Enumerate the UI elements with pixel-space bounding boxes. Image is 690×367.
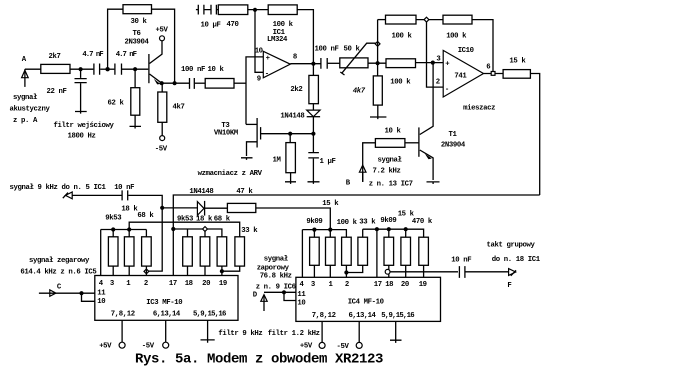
svg-text:2: 2: [345, 281, 349, 289]
svg-text:filtr 9 kHz: filtr 9 kHz: [218, 330, 262, 338]
resistor 18k (IC3 pin20): [196, 216, 213, 278]
node junction +input/T1 collector: [431, 61, 435, 65]
wire rail left group IC3: [101, 230, 147, 278]
node junction D branch: [282, 290, 286, 294]
svg-text:T1: T1: [449, 131, 458, 139]
svg-text:15 k: 15 k: [322, 200, 339, 208]
ground (4k7 pot): [370, 117, 386, 119]
wire X1 up to 30k: [108, 9, 123, 69]
node diamond rail 18k: [203, 227, 208, 232]
wire takt grupowy: [390, 271, 458, 273]
svg-text:100 k: 100 k: [337, 219, 358, 227]
svg-text:2N3904: 2N3904: [441, 142, 466, 150]
wire pot to 100k: [368, 62, 386, 64]
svg-text:10 k: 10 k: [385, 128, 402, 136]
svg-text:F: F: [507, 282, 511, 290]
node B input terminal: [346, 157, 413, 189]
resistor 9k53 (IC3 pin18): [177, 216, 194, 278]
resistor 10k (T1 base): [363, 128, 419, 182]
svg-text:100 nF: 100 nF: [315, 45, 339, 53]
svg-text:sygnał: sygnał: [13, 94, 38, 102]
svg-text:10: 10: [297, 299, 305, 307]
node emitter junction: [160, 81, 164, 85]
node junction res 9k53: [111, 227, 115, 231]
svg-text:6: 6: [486, 64, 490, 72]
node diamond junction (100k/100k): [424, 17, 429, 22]
IC U IC3 MF-10: [95, 276, 238, 321]
svg-text:2k7: 2k7: [49, 53, 61, 61]
wire 10k node down to T3 drain: [246, 123, 257, 125]
node junction 30k/emitter: [173, 81, 177, 85]
svg-text:2: 2: [144, 280, 148, 288]
svg-text:1800 Hz: 1800 Hz: [68, 133, 96, 141]
capacitor C 4.7nF first: [82, 51, 107, 75]
svg-text:-: -: [445, 86, 449, 94]
svg-text:10: 10: [255, 48, 263, 56]
svg-text:10 nF: 10 nF: [451, 257, 471, 265]
+5V terminal IC4: [300, 342, 325, 350]
label filtr wejsciowy 1800 Hz: [54, 122, 115, 141]
svg-text:18 k: 18 k: [196, 216, 213, 224]
resistor 100k (IC4 pin2): [337, 219, 358, 277]
capacitor 10uF: [196, 5, 221, 30]
svg-text:7.2 kHz: 7.2 kHz: [373, 168, 401, 176]
wire: [70, 68, 93, 70]
svg-text:5,9,15,16: 5,9,15,16: [193, 311, 226, 319]
wire emitter to 100nF: [162, 82, 189, 84]
IC U IC4 MF-10: [296, 277, 441, 321]
resistor 15k (IC4 pin1): [326, 230, 336, 278]
svg-text:33 k: 33 k: [241, 227, 258, 235]
svg-text:4.7 nF: 4.7 nF: [82, 51, 103, 59]
-5V terminal IC3: [142, 342, 169, 350]
svg-text:11: 11: [297, 291, 306, 299]
wire +5V stub IC4: [321, 321, 323, 342]
svg-text:6,13,14: 6,13,14: [153, 311, 181, 319]
svg-text:62 k: 62 k: [108, 100, 125, 108]
svg-text:2: 2: [436, 79, 440, 87]
svg-text:IC3 MF-10: IC3 MF-10: [146, 299, 182, 307]
svg-text:10 nF: 10 nF: [114, 184, 134, 192]
node junction res 15kb: [404, 227, 408, 231]
resistor 100k (top rail 2): [443, 15, 493, 71]
node diamond pin2 tap: [144, 269, 149, 274]
wire diamond to pin2: [427, 22, 444, 87]
svg-text:100 nF: 100 nF: [181, 66, 205, 74]
svg-text:10 k: 10 k: [208, 66, 225, 74]
node output arrow sygnal 9kHz: [10, 184, 122, 199]
node junction res 9k09b: [387, 227, 391, 231]
svg-text:19: 19: [419, 281, 427, 289]
wire: [128, 195, 162, 271]
diode 1N4148 (limiter): [162, 188, 227, 216]
node junction 2k7/22nF: [79, 67, 83, 71]
svg-text:sygnał: sygnał: [378, 157, 403, 165]
svg-text:100 k: 100 k: [273, 21, 294, 29]
svg-text:470: 470: [227, 21, 239, 29]
wire long net from 15k: [173, 195, 539, 277]
svg-text:takt grupowy: takt grupowy: [487, 242, 536, 250]
ground (62k): [130, 126, 142, 128]
resistor 100k (mixer input): [386, 59, 443, 87]
wire IC1 output: [290, 63, 320, 65]
svg-text:741: 741: [454, 73, 467, 81]
node junction 47k entry: [328, 228, 332, 232]
svg-text:4.7 nF: 4.7 nF: [116, 51, 137, 59]
svg-text:z n. 9 IC6: z n. 9 IC6: [256, 283, 296, 291]
svg-text:+5V: +5V: [300, 343, 313, 351]
svg-text:1M: 1M: [273, 157, 282, 165]
svg-text:VN10KM: VN10KM: [214, 130, 239, 138]
svg-text:33 k: 33 k: [359, 219, 376, 227]
resistor 62k: [108, 69, 140, 126]
resistor 470: [218, 5, 268, 29]
svg-text:5,9,15,16: 5,9,15,16: [381, 312, 414, 320]
svg-text:sygnał: sygnał: [264, 255, 289, 263]
svg-text:7,8,12: 7,8,12: [312, 312, 336, 320]
node takt output tap circle: [385, 269, 390, 274]
capacitor 10nF (9kHz out): [114, 184, 162, 271]
resistor 9k09 (IC4 pin3): [306, 218, 322, 277]
svg-text:17: 17: [169, 280, 177, 288]
wire +5V stub IC3: [121, 320, 123, 342]
svg-text:-: -: [265, 70, 269, 78]
svg-text:IC4 MF-10: IC4 MF-10: [348, 299, 384, 307]
svg-text:10 µF: 10 µF: [201, 22, 221, 30]
node junction 33k/pin2: [344, 270, 348, 274]
svg-text:30 k: 30 k: [131, 18, 148, 26]
svg-text:sygnał zegarowy: sygnał zegarowy: [29, 257, 90, 265]
svg-text:4k7: 4k7: [353, 88, 366, 96]
node junction diode tap: [160, 206, 164, 210]
svg-text:9k09: 9k09: [306, 218, 322, 226]
node junction rail right group IC3: [171, 227, 175, 231]
wire node to IC1 +input and T3 drain: [246, 57, 263, 125]
wire: [472, 20, 493, 72]
node IC1 output junction: [311, 62, 315, 66]
svg-text:100 k: 100 k: [392, 33, 413, 41]
svg-text:z p. A: z p. A: [13, 117, 38, 125]
resistor 33k (IC3 bridge): [222, 227, 258, 271]
resistor 100k (IC1 feedback): [268, 5, 313, 64]
resistor 10k (IC1 input): [205, 66, 246, 88]
wire: [363, 143, 376, 182]
resistor 15k (mixer out): [503, 58, 540, 196]
wire: [248, 9, 268, 11]
svg-text:8: 8: [293, 54, 297, 62]
svg-text:wzmacniacz z ARV: wzmacniacz z ARV: [198, 170, 263, 178]
resistor 33k (IC4 bridge): [346, 219, 376, 273]
svg-text:18 k: 18 k: [121, 205, 138, 213]
svg-text:68 k: 68 k: [214, 216, 231, 224]
svg-text:zaporowy: zaporowy: [257, 264, 290, 272]
svg-text:19: 19: [219, 280, 227, 288]
svg-text:4k7: 4k7: [173, 104, 185, 112]
node junction pot/100k: [376, 61, 380, 65]
svg-text:-5V: -5V: [155, 146, 168, 154]
wire pot node vertical: [377, 20, 379, 76]
svg-text:20: 20: [202, 280, 210, 288]
capacitor 10nF (takt): [451, 257, 508, 278]
svg-text:15 k: 15 k: [509, 58, 526, 66]
resistor 9k09 (IC4 pin18): [380, 217, 396, 277]
wire: [234, 82, 246, 84]
svg-text:+5V: +5V: [156, 27, 169, 35]
ground (22nF): [75, 112, 87, 114]
node wiper diamond: [375, 42, 380, 47]
wire: [152, 9, 175, 83]
resistor 9k53 (IC3 pin3): [105, 215, 122, 278]
transistor T3 VN10KM mosfet: [214, 118, 290, 156]
resistor 68k (IC3 pin19): [214, 216, 231, 278]
svg-text:11: 11: [97, 290, 106, 298]
svg-text:76.8 kHz: 76.8 kHz: [260, 272, 292, 280]
svg-text:10: 10: [97, 298, 105, 306]
wire feedback to pin 9: [255, 10, 263, 73]
svg-text:17: 17: [374, 281, 382, 289]
ground (1uF): [308, 182, 320, 184]
transistor T6 2N3904: [125, 30, 163, 84]
node F output arrow: [487, 242, 541, 291]
svg-text:filtr wejściowy: filtr wejściowy: [54, 122, 115, 130]
svg-text:filtr 1.2 kHz: filtr 1.2 kHz: [268, 330, 320, 338]
op-amp U IC1 LM324: [263, 29, 290, 78]
svg-text:9k09: 9k09: [380, 217, 396, 225]
ground (T1 emitter): [427, 182, 440, 184]
potentiometer 50k: [340, 43, 376, 75]
node gate junction 1M: [288, 132, 292, 136]
svg-text:20: 20: [401, 281, 409, 289]
svg-text:IC10: IC10: [458, 47, 474, 55]
capacitor 22nF: [47, 69, 87, 111]
wire mixer output: [484, 73, 504, 75]
+5V terminal IC3: [99, 342, 125, 350]
node D input terminal: [253, 255, 296, 311]
node junction pin17 IC4: [375, 227, 379, 231]
resistor 100k (top rail 1): [378, 15, 443, 40]
svg-text:50 k: 50 k: [344, 45, 361, 53]
svg-text:6,13,14: 6,13,14: [349, 312, 377, 320]
resistor 470k (IC4 pin19): [412, 218, 433, 277]
node junction res 9k09: [312, 228, 316, 232]
wire: [297, 10, 313, 64]
wire gate to diode node: [290, 133, 313, 135]
svg-text:9k53: 9k53: [105, 215, 122, 223]
svg-text:+5V: +5V: [99, 343, 112, 351]
wire -5V stub IC3: [165, 320, 167, 342]
svg-text:7,8,12: 7,8,12: [111, 311, 135, 319]
wire: [530, 74, 539, 196]
op-amp U IC10 741 mixer: [443, 47, 495, 113]
svg-text:1 µF: 1 µF: [320, 158, 336, 166]
resistor 47k: [227, 188, 330, 230]
svg-text:100 k: 100 k: [390, 79, 411, 87]
resistor 1M (AGC): [273, 134, 296, 182]
wire upper rail (18k to 33k): [129, 222, 240, 237]
transistor T1 2N3904: [419, 63, 466, 180]
node junction C branch: [79, 291, 83, 295]
capacitor 1uF (AGC): [308, 134, 335, 182]
svg-text:22 nF: 22 nF: [47, 88, 67, 96]
svg-text:mieszacz: mieszacz: [463, 105, 495, 113]
ground (1M): [285, 182, 296, 184]
capacitor 100nF (IC1 out): [315, 45, 340, 68]
svg-text:9: 9: [257, 76, 261, 84]
svg-text:2N3904: 2N3904: [125, 39, 150, 47]
node junction 470/100k feedback: [253, 8, 257, 12]
resistor 18k (IC3 pin1): [121, 205, 138, 277]
ground (IC3 pins 5,9,15,16): [201, 320, 215, 342]
svg-text:9k53: 9k53: [177, 216, 194, 224]
wire rail left group IC4: [302, 230, 347, 278]
diode 1N4148 (AGC rectifier): [280, 104, 320, 134]
svg-text:614.4 kHz z n.6 IC5: 614.4 kHz z n.6 IC5: [20, 269, 96, 277]
-5V terminal IC4: [337, 342, 363, 351]
wire -5V stub IC4: [358, 321, 360, 342]
resistor 15k (IC4 pin20): [398, 210, 415, 277]
ground (T3 source): [241, 158, 253, 160]
svg-text:LM324: LM324: [267, 36, 288, 44]
node X1 junction: [105, 67, 109, 71]
node C input terminal: [20, 257, 96, 301]
node junction base/62k: [133, 67, 137, 71]
node junction res 18k: [127, 227, 131, 231]
svg-text:akustyczny: akustyczny: [10, 106, 51, 114]
node A input terminal: [10, 56, 51, 125]
svg-text:470 k: 470 k: [412, 218, 433, 226]
svg-text:sygnał 9 kHz do n. 5 IC1: sygnał 9 kHz do n. 5 IC1: [10, 184, 107, 192]
wire pin17 lead IC4: [376, 229, 378, 277]
wire: [416, 62, 444, 64]
-5V terminal (4k7): [155, 136, 168, 154]
svg-text:1N4148: 1N4148: [280, 113, 304, 121]
svg-text:-5V: -5V: [142, 343, 155, 351]
resistor 68k (IC3 pin2): [137, 212, 154, 277]
svg-text:do n. 18 IC1: do n. 18 IC1: [492, 256, 541, 264]
resistor 2k2: [290, 64, 318, 104]
node diode junction: [311, 132, 315, 136]
svg-text:2k2: 2k2: [290, 86, 302, 94]
svg-text:-5V: -5V: [337, 343, 350, 351]
svg-text:z n. 13 IC7: z n. 13 IC7: [369, 180, 413, 188]
svg-text:Rys. 5a. Modem z obwodem XR212: Rys. 5a. Modem z obwodem XR2123: [135, 352, 383, 367]
node junction 33k/pin19: [220, 269, 224, 273]
resistor 2k7: [41, 53, 94, 73]
svg-text:18: 18: [185, 280, 193, 288]
resistor 4k7 (pot to ground): [353, 76, 383, 117]
+5V terminal (T6 collector): [156, 27, 169, 41]
svg-text:18: 18: [385, 281, 393, 289]
resistor 30k feedback: [123, 5, 175, 84]
ground (IC4 pins 5,9,15,16): [390, 321, 402, 343]
resistor 4k7 (T6 emitter): [158, 83, 185, 135]
svg-text:T6: T6: [133, 30, 141, 38]
capacitor 100nF (emitter coupling): [181, 66, 205, 89]
node output square junction: [491, 72, 495, 76]
wire: [256, 208, 330, 230]
wire: [416, 19, 443, 21]
wire rail right group IC4: [363, 229, 424, 237]
svg-text:68 k: 68 k: [137, 212, 154, 220]
svg-text:100 k: 100 k: [446, 33, 467, 41]
wire rail right group IC3: [173, 229, 222, 237]
capacitor C 4.7nF second: [108, 51, 149, 75]
